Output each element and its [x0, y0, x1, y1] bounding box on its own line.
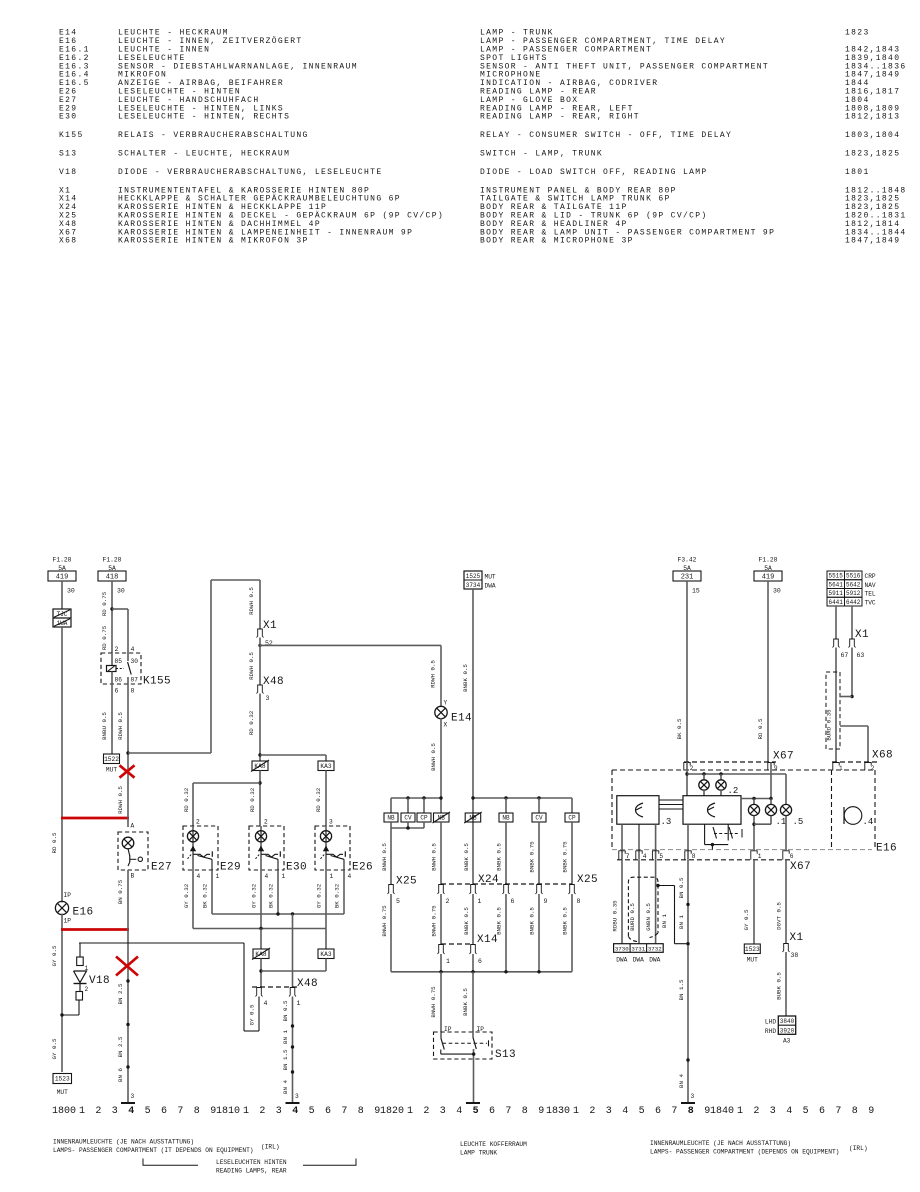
svg-text:LEUCHTE KOFFERRAUM: LEUCHTE KOFFERRAUM [460, 1141, 527, 1148]
svg-text:RD 0.32: RD 0.32 [249, 787, 256, 812]
svg-text:418: 418 [106, 574, 119, 582]
svg-text:1: 1 [478, 898, 482, 905]
svg-text:TVC: TVC [865, 599, 876, 606]
svg-text:BNWH 0.5: BNWH 0.5 [430, 743, 437, 771]
svg-text:3: 3 [691, 1093, 695, 1100]
svg-text:87: 87 [131, 677, 139, 684]
svg-text:F1.28: F1.28 [103, 557, 122, 564]
svg-text:KA3: KA3 [320, 951, 331, 958]
svg-text:BNWH 0.5: BNWH 0.5 [431, 843, 438, 871]
svg-text:.2: .2 [728, 786, 739, 796]
svg-text:7: 7 [341, 1106, 347, 1117]
svg-text:BK 0.32: BK 0.32 [334, 883, 341, 908]
svg-text:GY 0.5: GY 0.5 [51, 1038, 58, 1059]
svg-text:1: 1 [216, 873, 220, 880]
svg-text:TEL: TEL [865, 591, 876, 598]
svg-text:5641: 5641 [828, 581, 843, 588]
svg-text:4: 4 [265, 873, 269, 880]
svg-text:BODY REAR & MICROPHONE 3P: BODY REAR & MICROPHONE 3P [480, 237, 634, 246]
svg-text:BK 0.5: BK 0.5 [676, 718, 683, 739]
svg-text:2: 2 [115, 646, 119, 653]
svg-text:8: 8 [692, 853, 696, 860]
svg-text:5516: 5516 [846, 573, 861, 580]
svg-text:2: 2 [85, 986, 89, 993]
svg-text:6: 6 [655, 1106, 661, 1117]
svg-text:6: 6 [325, 1106, 331, 1117]
svg-text:GY 0.32: GY 0.32 [316, 883, 323, 908]
svg-text:6: 6 [161, 1106, 167, 1117]
svg-text:6: 6 [511, 898, 515, 905]
svg-text:BNBU 0.5: BNBU 0.5 [101, 712, 108, 740]
svg-text:X67: X67 [773, 751, 794, 763]
svg-text:5: 5 [639, 1106, 645, 1117]
svg-text:1801: 1801 [845, 168, 870, 177]
svg-text:3: 3 [295, 1093, 299, 1100]
svg-text:RD 0.32: RD 0.32 [183, 787, 190, 812]
svg-text:4: 4 [292, 1106, 298, 1117]
svg-text:231: 231 [681, 574, 694, 582]
svg-text:BN 1: BN 1 [282, 1030, 289, 1044]
svg-text:2: 2 [446, 898, 450, 905]
svg-text:V18: V18 [89, 975, 110, 987]
svg-text:3734: 3734 [466, 582, 481, 589]
svg-text:KA8: KA8 [255, 951, 266, 958]
svg-text:X1: X1 [263, 620, 277, 632]
svg-text:DIODE - LOAD SWITCH OFF, READI: DIODE - LOAD SWITCH OFF, READING LAMP [480, 168, 708, 177]
svg-text:5911: 5911 [828, 590, 843, 597]
svg-text:1523: 1523 [55, 1076, 70, 1083]
svg-text:3: 3 [266, 695, 270, 702]
svg-text:1525: 1525 [466, 573, 481, 580]
svg-text:2: 2 [589, 1106, 595, 1117]
svg-text:Y: Y [444, 700, 448, 707]
svg-text:DWA: DWA [633, 957, 644, 964]
svg-text:DWA: DWA [649, 957, 660, 964]
svg-text:CV: CV [535, 815, 543, 822]
svg-text:BNBK 0.5: BNBK 0.5 [529, 907, 536, 935]
svg-text:INNENRAUMLEUCHTE (JE NACH AUSS: INNENRAUMLEUCHTE (JE NACH AUSSTATTUNG) [650, 1140, 791, 1147]
svg-text:6: 6 [115, 688, 119, 695]
svg-text:1810: 1810 [216, 1106, 240, 1117]
svg-text:2: 2 [196, 819, 200, 826]
svg-text:K155: K155 [59, 131, 84, 140]
svg-text:3920: 3920 [780, 1027, 795, 1034]
svg-text:9: 9 [538, 1106, 544, 1117]
svg-text:1: 1 [446, 958, 450, 965]
svg-text:X1: X1 [855, 629, 869, 641]
svg-text:3: 3 [329, 819, 333, 826]
svg-text:KA8: KA8 [254, 763, 265, 770]
svg-text:3: 3 [606, 1106, 612, 1117]
svg-text:1: 1 [243, 1106, 249, 1117]
svg-text:2: 2 [690, 765, 694, 772]
svg-text:X48: X48 [263, 676, 284, 688]
svg-text:7: 7 [671, 1106, 677, 1117]
svg-text:.5: .5 [793, 817, 804, 827]
svg-text:8: 8 [688, 1106, 694, 1117]
svg-text:86: 86 [115, 677, 123, 684]
svg-text:5: 5 [396, 898, 400, 905]
svg-text:BUBK 0.5: BUBK 0.5 [776, 972, 783, 1000]
svg-text:7: 7 [835, 1106, 841, 1117]
svg-text:RD 0.75: RD 0.75 [101, 591, 108, 616]
svg-text:(IRL): (IRL) [849, 1145, 868, 1152]
svg-text:LAMP TRUNK: LAMP TRUNK [460, 1149, 497, 1156]
svg-text:E26: E26 [352, 862, 373, 874]
svg-text:BURD 0.5: BURD 0.5 [629, 903, 636, 931]
svg-text:30: 30 [131, 658, 139, 665]
svg-text:BN 0.75: BN 0.75 [117, 879, 124, 904]
svg-text:RD 0.75: RD 0.75 [101, 625, 108, 650]
svg-text:BNBK 0.5: BNBK 0.5 [496, 907, 503, 935]
svg-text:5: 5 [309, 1106, 315, 1117]
svg-text:30: 30 [117, 588, 125, 595]
svg-text:CP: CP [568, 815, 576, 822]
svg-text:3: 3 [770, 1106, 776, 1117]
svg-text:X24: X24 [478, 874, 499, 886]
svg-text:MUT: MUT [106, 767, 117, 774]
svg-text:NB: NB [387, 815, 395, 822]
svg-text:1800: 1800 [52, 1106, 76, 1117]
svg-text:BNBK 0.75: BNBK 0.75 [529, 841, 536, 873]
svg-text:RDWH 0.5: RDWH 0.5 [117, 786, 124, 814]
svg-text:1523: 1523 [745, 946, 760, 953]
svg-text:67: 67 [841, 652, 849, 659]
svg-text:IP: IP [64, 892, 72, 899]
svg-text:BN 0.5: BN 0.5 [282, 1000, 289, 1021]
svg-text:BN 2.5: BN 2.5 [117, 983, 124, 1004]
svg-text:8: 8 [194, 1106, 200, 1117]
svg-text:INNENRAUMLEUCHTE (JE NACH AUSS: INNENRAUMLEUCHTE (JE NACH AUSSTATTUNG) [53, 1139, 194, 1146]
svg-text:BNBK 0.5: BNBK 0.5 [496, 843, 503, 871]
svg-text:3730: 3730 [615, 945, 629, 952]
svg-text:1: 1 [573, 1106, 579, 1117]
svg-text:1803,1804: 1803,1804 [845, 131, 900, 140]
svg-text:E27: E27 [151, 862, 172, 874]
svg-text:BN 4: BN 4 [678, 1074, 685, 1088]
svg-text:DGVT 0.5: DGVT 0.5 [776, 902, 783, 930]
svg-text:7: 7 [177, 1106, 183, 1117]
svg-text:RDWH 0.5: RDWH 0.5 [430, 660, 437, 688]
svg-text:CRP: CRP [865, 573, 876, 580]
svg-text:BNWH 0.75: BNWH 0.75 [381, 905, 388, 937]
svg-text:8: 8 [577, 898, 581, 905]
svg-text:F3.42: F3.42 [678, 557, 697, 564]
svg-text:3840: 3840 [780, 1018, 795, 1025]
svg-text:1: 1 [737, 1106, 743, 1117]
svg-text:K155: K155 [143, 676, 171, 688]
svg-text:3732: 3732 [648, 945, 662, 952]
svg-text:8: 8 [358, 1106, 364, 1117]
svg-text:E29: E29 [220, 862, 241, 874]
svg-text:RD 0.32: RD 0.32 [315, 787, 322, 812]
svg-text:BNWH 0.75: BNWH 0.75 [430, 986, 437, 1018]
svg-text:RD 0.32: RD 0.32 [248, 710, 255, 735]
svg-text:5515: 5515 [828, 573, 843, 580]
svg-text:5: 5 [145, 1106, 151, 1117]
svg-text:KAROSSERIE HINTEN & MIKROFON 3: KAROSSERIE HINTEN & MIKROFON 3P [118, 237, 309, 246]
svg-text:63: 63 [857, 652, 865, 659]
svg-text:BNBK 0.5: BNBK 0.5 [463, 843, 470, 871]
svg-text:BN 1: BN 1 [678, 915, 685, 929]
svg-text:1: 1 [79, 1106, 85, 1117]
svg-text:BN 0.5: BN 0.5 [678, 877, 685, 898]
svg-text:1812,1813: 1812,1813 [845, 113, 900, 122]
svg-text:7: 7 [626, 853, 630, 860]
svg-text:6: 6 [489, 1106, 495, 1117]
svg-text:(IRL): (IRL) [261, 1144, 280, 1151]
svg-text:BNBK 0.5: BNBK 0.5 [562, 907, 569, 935]
svg-text:RELAY - CONSUMER SWITCH - OFF,: RELAY - CONSUMER SWITCH - OFF, TIME DELA… [480, 131, 732, 140]
svg-text:SCHALTER - LEUCHTE, HECKRAUM: SCHALTER - LEUCHTE, HECKRAUM [118, 150, 290, 159]
svg-text:6: 6 [790, 853, 794, 860]
svg-text:1847,1849: 1847,1849 [845, 237, 900, 246]
svg-text:E16: E16 [73, 907, 94, 919]
svg-text:6441: 6441 [828, 599, 843, 606]
svg-text:BK 0.32: BK 0.32 [202, 883, 209, 908]
svg-text:2: 2 [871, 765, 875, 772]
svg-text:LHD: LHD [765, 1019, 776, 1026]
svg-text:85: 85 [115, 658, 123, 665]
svg-text:F1.28: F1.28 [759, 557, 778, 564]
svg-text:X68: X68 [872, 750, 893, 762]
svg-text:38: 38 [791, 952, 799, 959]
svg-text:LESELEUCHTE - HINTEN, RECHTS: LESELEUCHTE - HINTEN, RECHTS [118, 113, 290, 122]
svg-text:LAMPS- PASSENGER COMPARTMENT (: LAMPS- PASSENGER COMPARTMENT (DEPENDS ON… [650, 1148, 839, 1155]
svg-text:4: 4 [643, 853, 647, 860]
svg-text:BN 1.5: BN 1.5 [678, 979, 685, 1000]
svg-text:30: 30 [67, 588, 75, 595]
svg-text:.1: .1 [776, 817, 787, 827]
svg-text:X1: X1 [790, 932, 804, 944]
svg-text:X14: X14 [477, 934, 498, 946]
svg-text:4: 4 [456, 1106, 462, 1117]
svg-text:MUT: MUT [747, 957, 758, 964]
svg-text:RD 0.5: RD 0.5 [51, 832, 58, 853]
svg-text:.3: .3 [661, 817, 672, 827]
svg-text:X48: X48 [297, 978, 318, 990]
svg-text:LAMPS- PASSENGER COMPARTMENT (: LAMPS- PASSENGER COMPARTMENT (IT DEPENDS… [53, 1147, 254, 1154]
svg-text:BN 1.5: BN 1.5 [282, 1049, 289, 1070]
svg-text:READING LAMPS, REAR: READING LAMPS, REAR [216, 1167, 287, 1174]
svg-text:READING LAMP - REAR, RIGHT: READING LAMP - REAR, RIGHT [480, 113, 640, 122]
svg-text:RDWH 0.5: RDWH 0.5 [117, 712, 124, 740]
svg-text:6: 6 [478, 958, 482, 965]
svg-text:F1.28: F1.28 [53, 557, 72, 564]
svg-text:9: 9 [868, 1106, 874, 1117]
svg-text:3731: 3731 [631, 945, 645, 952]
svg-text:.4: .4 [863, 817, 874, 827]
svg-text:KA3: KA3 [320, 763, 331, 770]
svg-text:B: B [131, 873, 135, 880]
svg-text:A3: A3 [783, 1037, 791, 1044]
svg-text:BN 2.5: BN 2.5 [117, 1036, 124, 1057]
svg-text:1P: 1P [64, 918, 72, 925]
svg-text:6: 6 [819, 1106, 825, 1117]
svg-text:BN 6: BN 6 [117, 1068, 124, 1082]
svg-text:4: 4 [786, 1106, 792, 1117]
svg-text:NB: NB [502, 815, 510, 822]
svg-text:LESELEUCHTEN HINTEN: LESELEUCHTEN HINTEN [216, 1159, 287, 1166]
svg-text:RDWH 0.5: RDWH 0.5 [248, 652, 255, 680]
svg-text:BN 1: BN 1 [661, 914, 668, 928]
svg-text:4: 4 [264, 1000, 268, 1007]
svg-text:1: 1 [85, 965, 89, 972]
svg-text:5642: 5642 [846, 581, 861, 588]
svg-text:GY 0.5: GY 0.5 [51, 945, 58, 966]
svg-text:5: 5 [803, 1106, 809, 1117]
svg-text:BNWH 0.75: BNWH 0.75 [431, 905, 438, 937]
svg-text:NAV: NAV [865, 582, 876, 589]
svg-text:DWA: DWA [616, 957, 627, 964]
svg-text:BURD 0.35: BURD 0.35 [826, 709, 833, 741]
svg-text:419: 419 [762, 574, 775, 582]
svg-text:419: 419 [56, 574, 69, 582]
svg-text:SWITCH - LAMP, TRUNK: SWITCH - LAMP, TRUNK [480, 150, 603, 159]
svg-text:2: 2 [423, 1106, 429, 1117]
svg-text:1: 1 [282, 873, 286, 880]
svg-text:3: 3 [440, 1106, 446, 1117]
svg-text:BN 4: BN 4 [282, 1080, 289, 1094]
svg-text:8: 8 [131, 688, 135, 695]
svg-text:4: 4 [348, 873, 352, 880]
svg-text:1: 1 [330, 873, 334, 880]
svg-text:E14: E14 [451, 713, 472, 725]
svg-text:DWA: DWA [485, 583, 496, 590]
svg-text:1820: 1820 [380, 1106, 404, 1117]
svg-text:GY 0.5: GY 0.5 [249, 1004, 256, 1025]
svg-text:BNBK 0.5: BNBK 0.5 [462, 664, 469, 692]
svg-text:1823,1825: 1823,1825 [845, 150, 900, 159]
svg-text:4: 4 [128, 1106, 134, 1117]
svg-text:1840: 1840 [710, 1106, 734, 1117]
svg-text:BNBK 0.5: BNBK 0.5 [462, 988, 469, 1016]
svg-text:V18: V18 [59, 168, 77, 177]
svg-text:E30: E30 [59, 113, 77, 122]
svg-text:6442: 6442 [846, 599, 861, 606]
svg-text:X25: X25 [577, 874, 598, 886]
svg-text:GNBN 0.5: GNBN 0.5 [645, 903, 652, 931]
svg-text:GY 0.32: GY 0.32 [251, 883, 258, 908]
svg-text:GY 0.5: GY 0.5 [743, 909, 750, 930]
svg-text:X: X [444, 722, 448, 729]
svg-text:X68: X68 [59, 237, 77, 246]
svg-text:RD 0.5: RD 0.5 [757, 718, 764, 739]
svg-text:5: 5 [659, 853, 663, 860]
svg-text:DIODE - VERBRAUCHERABSCHALTUNG: DIODE - VERBRAUCHERABSCHALTUNG, LESELEUC… [118, 168, 382, 177]
svg-text:3: 3 [131, 1093, 135, 1100]
svg-text:3: 3 [276, 1106, 282, 1117]
svg-text:A: A [131, 823, 135, 830]
svg-text:4: 4 [131, 646, 135, 653]
svg-text:1: 1 [839, 765, 843, 772]
svg-text:4: 4 [197, 873, 201, 880]
svg-text:2: 2 [264, 819, 268, 826]
svg-text:1522: 1522 [104, 756, 119, 763]
svg-text:30: 30 [773, 588, 781, 595]
svg-text:BNWH 0.5: BNWH 0.5 [381, 843, 388, 871]
svg-text:1: 1 [758, 853, 762, 860]
svg-text:MUT: MUT [485, 574, 496, 581]
svg-text:RDBU 0.35: RDBU 0.35 [612, 900, 619, 932]
svg-text:CP: CP [420, 815, 428, 822]
svg-text:2: 2 [259, 1106, 265, 1117]
svg-text:GY 0.32: GY 0.32 [183, 883, 190, 908]
svg-text:9: 9 [544, 898, 548, 905]
svg-text:RELAIS - VERBRAUCHERABSCHALTUN: RELAIS - VERBRAUCHERABSCHALTUNG [118, 131, 309, 140]
svg-text:1823: 1823 [845, 29, 870, 38]
svg-text:5: 5 [473, 1106, 479, 1117]
svg-text:3: 3 [112, 1106, 118, 1117]
svg-text:CV: CV [404, 815, 412, 822]
svg-text:1: 1 [407, 1106, 413, 1117]
svg-text:X67: X67 [790, 861, 811, 873]
svg-text:9: 9 [774, 765, 778, 772]
svg-text:5912: 5912 [846, 590, 861, 597]
svg-text:E16: E16 [876, 843, 897, 855]
svg-text:MUT: MUT [57, 1089, 68, 1096]
svg-text:BNBK 0.75: BNBK 0.75 [562, 841, 569, 873]
svg-text:E30: E30 [286, 862, 307, 874]
svg-text:1830: 1830 [546, 1106, 570, 1117]
svg-text:15: 15 [692, 588, 700, 595]
svg-text:8: 8 [522, 1106, 528, 1117]
svg-text:1: 1 [297, 1000, 301, 1007]
svg-text:7: 7 [505, 1106, 511, 1117]
svg-text:2: 2 [753, 1106, 759, 1117]
svg-text:BK 0.32: BK 0.32 [268, 883, 275, 908]
svg-text:RHD: RHD [765, 1028, 776, 1035]
svg-text:4: 4 [622, 1106, 628, 1117]
svg-text:BNBK 0.5: BNBK 0.5 [463, 907, 470, 935]
svg-text:8: 8 [852, 1106, 858, 1117]
svg-text:X25: X25 [396, 876, 417, 888]
svg-text:2: 2 [95, 1106, 101, 1117]
svg-text:S13: S13 [495, 1049, 516, 1061]
svg-text:S13: S13 [59, 150, 77, 159]
svg-text:RDWH 0.5: RDWH 0.5 [248, 587, 255, 615]
